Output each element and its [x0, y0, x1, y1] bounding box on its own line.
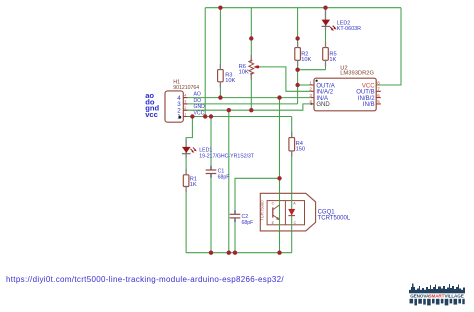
- junction VCC C1: [209, 114, 213, 118]
- junction bottom GND: [227, 251, 231, 255]
- wire R6 branch vertical: [250, 8, 252, 111]
- wire R4 LED anode vertical: [291, 117, 293, 253]
- svg-text:VCC: VCC: [362, 83, 375, 89]
- svg-text:4: 4: [184, 93, 186, 97]
- svg-text:SMART: SMART: [429, 293, 445, 298]
- svg-text:vcc: vcc: [145, 110, 158, 119]
- capacitor C1: [206, 166, 230, 181]
- wire R2 output branch vertical: [297, 8, 299, 104]
- wire LED1 jog from VCC row: [186, 117, 192, 253]
- wire C1 branch: [210, 117, 212, 253]
- svg-text:C: C: [272, 202, 275, 206]
- svg-text:OUT/B: OUT/B: [356, 90, 374, 96]
- junction bottom C1: [209, 251, 213, 255]
- wire VCC row: [183, 116, 291, 118]
- wire U2 pin8 VCC: [377, 8, 401, 85]
- potentiometer R6: [239, 59, 258, 75]
- svg-text:10K: 10K: [301, 57, 311, 63]
- resistor R1: [183, 175, 197, 188]
- svg-text:GND: GND: [194, 104, 206, 110]
- wire bottom rail: [186, 252, 292, 254]
- svg-text:C: C: [294, 221, 297, 225]
- hyperlink caption: [6, 275, 284, 284]
- wire VCC top rail: [205, 7, 401, 9]
- U2 left pin stubs: [311, 85, 314, 104]
- junction AO R3: [218, 95, 222, 99]
- capacitor C2: [230, 210, 254, 226]
- svg-text:1: 1: [184, 112, 186, 116]
- svg-text:IN/A: IN/A: [316, 96, 328, 102]
- wire DO row: [183, 103, 297, 105]
- LED in CGQ1: [288, 202, 296, 226]
- junction GND R6: [249, 108, 253, 112]
- junction R5 R2: [295, 68, 299, 72]
- svg-text:1K: 1K: [190, 182, 197, 188]
- LED LED1: [182, 140, 255, 160]
- U2 pin numbers right: [377, 80, 380, 104]
- logo genova village: [407, 281, 467, 307]
- svg-text:IN/B/2: IN/B/2: [358, 96, 375, 102]
- wire R6 wiper to U2 pin2: [258, 67, 311, 91]
- svg-text:LM393DR2G: LM393DR2G: [340, 71, 374, 77]
- junction top rail LED2: [323, 6, 327, 10]
- wire AO row: [183, 97, 311, 99]
- wire C2 branch from AO node: [235, 178, 280, 252]
- svg-text:IN/B: IN/B: [363, 102, 375, 108]
- svg-text:150: 150: [296, 146, 306, 152]
- U2 right pin stubs: [376, 91, 381, 104]
- svg-text:19-217/GHC-YR1S2/3T: 19-217/GHC-YR1S2/3T: [199, 153, 255, 159]
- svg-text:DO: DO: [194, 98, 202, 104]
- svg-text:VILLAGE: VILLAGE: [445, 293, 464, 298]
- connector H1: [165, 79, 199, 122]
- svg-text:10K: 10K: [225, 78, 235, 84]
- junction bottom emitter: [277, 251, 281, 255]
- svg-text:68pF: 68pF: [242, 220, 254, 226]
- svg-text:AO: AO: [194, 92, 201, 98]
- svg-text:1K: 1K: [329, 57, 336, 63]
- junction top rail R3: [218, 6, 222, 10]
- optocoupler CGQ1 TCRT5000L: [260, 193, 316, 231]
- wire TCRT anode pass-through: [291, 193, 293, 231]
- junction VCC LED1: [190, 114, 194, 118]
- svg-text:KT-0603R: KT-0603R: [337, 26, 361, 32]
- H1 pin stubs: [183, 98, 187, 117]
- svg-text:10K: 10K: [239, 69, 249, 75]
- junction R2 upper: [295, 36, 299, 40]
- svg-text:IN/A/2: IN/A/2: [316, 90, 333, 96]
- wire GND row to bottom rail: [228, 110, 230, 253]
- junction R6 upper: [249, 36, 253, 40]
- op-amp U2: [314, 66, 376, 111]
- wire R5 bottom to R2 branch: [298, 69, 326, 71]
- component pin leads gray: [186, 42, 325, 193]
- U2 pin numbers left: [309, 80, 312, 104]
- svg-text:GND: GND: [316, 102, 330, 108]
- svg-text:3: 3: [184, 100, 186, 104]
- U2 GND pin arrow: [311, 103, 314, 106]
- wire vertical top rail to VCC row: [204, 8, 206, 117]
- LED LED2: [322, 10, 362, 32]
- wire U2 pin1 OUT/A: [298, 84, 311, 86]
- svg-text:TCRT5000L: TCRT5000L: [318, 216, 351, 222]
- junction wiper: [256, 65, 259, 68]
- junction OUT/A: [295, 83, 299, 87]
- svg-text:901210764: 901210764: [173, 85, 199, 91]
- junction GND C: [227, 108, 231, 112]
- wire GND row: [183, 104, 311, 110]
- svg-text:68pF: 68pF: [218, 174, 230, 180]
- svg-text:OUT/A: OUT/A: [316, 83, 334, 89]
- wire R3 branch vertical: [219, 8, 221, 98]
- resistor R4: [289, 138, 305, 153]
- resistor R3: [218, 70, 236, 85]
- junction bottom C2: [233, 251, 237, 255]
- svg-text:VCC: VCC: [194, 111, 205, 117]
- wire TCRT collector pass-through: [279, 193, 281, 231]
- junction VCC rail: [203, 114, 207, 118]
- wire TCRT collector vertical: [279, 98, 281, 253]
- resistor R5: [323, 48, 337, 63]
- resistor R2: [295, 48, 312, 63]
- junction AO collector: [277, 95, 281, 99]
- wire LED2 R5 branch vertical: [325, 8, 327, 70]
- svg-text:2: 2: [184, 106, 186, 110]
- junction C2 AO node: [277, 176, 281, 180]
- H1 pin numbers: [184, 93, 186, 116]
- phototransistor in CGQ1: [272, 202, 280, 226]
- svg-text:TCRT5000: TCRT5000: [260, 200, 265, 221]
- svg-text:GENOVA: GENOVA: [410, 293, 430, 298]
